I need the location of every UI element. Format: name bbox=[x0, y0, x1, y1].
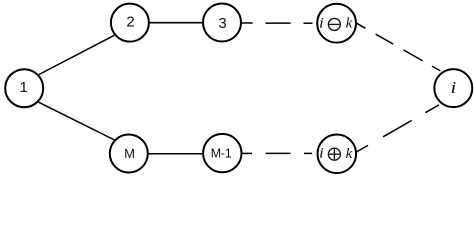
node M-1 circle bbox=[203, 134, 241, 172]
wire edge 1-M solid bbox=[38, 102, 115, 140]
svg-text:1: 1 bbox=[20, 79, 28, 96]
node i-plus-k label: circled plus symbol bbox=[328, 148, 340, 160]
wire edge 3 to i-minus-k dashed bbox=[242, 22, 313, 24]
wire edge i-plus-k to i dashed bbox=[356, 105, 439, 152]
svg-text:M: M bbox=[124, 146, 135, 161]
svg-text:i: i bbox=[451, 79, 457, 98]
wire edge 2-3 solid bbox=[148, 22, 204, 24]
wire edge M-1 to i-plus-k dashed bbox=[241, 152, 312, 154]
node 3 circle bbox=[203, 4, 241, 42]
node i-minus-k label: circled minus symbol bbox=[328, 18, 340, 30]
svg-text:2: 2 bbox=[126, 14, 134, 31]
node i circle bbox=[434, 69, 472, 107]
svg-text:3: 3 bbox=[218, 15, 226, 32]
node i-minus-k circle bbox=[317, 4, 356, 43]
node 1 circle bbox=[5, 69, 43, 107]
node M circle bbox=[110, 135, 148, 173]
svg-text:k: k bbox=[346, 16, 353, 32]
node i-plus-k circle bbox=[318, 135, 357, 174]
svg-text:i: i bbox=[319, 16, 324, 32]
wire edge M-M-1 solid bbox=[147, 153, 205, 155]
wire edge i-minus-k to i dashed bbox=[357, 23, 441, 71]
svg-text:M-1: M-1 bbox=[211, 146, 232, 160]
svg-text:k: k bbox=[346, 146, 353, 162]
svg-text:i: i bbox=[319, 146, 324, 162]
node 2 circle bbox=[111, 4, 149, 42]
wire edge 1-2 solid bbox=[39, 35, 114, 74]
